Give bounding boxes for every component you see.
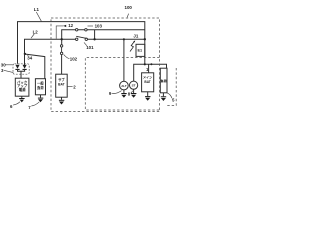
svg-text:負荷: 負荷 xyxy=(161,78,168,83)
svg-text:ST: ST xyxy=(132,84,136,88)
svg-text:E1: E1 xyxy=(137,48,142,52)
svg-text:34: 34 xyxy=(27,55,32,60)
svg-text:BAT: BAT xyxy=(58,82,65,86)
svg-text:BAT: BAT xyxy=(144,80,150,84)
svg-text:L2: L2 xyxy=(33,30,39,35)
svg-text:サブ: サブ xyxy=(58,77,65,82)
svg-text:電源: 電源 xyxy=(19,87,26,92)
svg-text:12: 12 xyxy=(68,23,73,28)
svg-text:J1: J1 xyxy=(133,34,138,39)
svg-text:100: 100 xyxy=(125,5,133,10)
svg-text:ALT: ALT xyxy=(121,84,127,88)
svg-text:負荷: 負荷 xyxy=(37,85,44,90)
svg-text:102: 102 xyxy=(70,56,78,61)
svg-text:30: 30 xyxy=(1,62,6,67)
svg-text:103: 103 xyxy=(95,24,103,29)
svg-text:101: 101 xyxy=(86,45,94,50)
svg-text:L1: L1 xyxy=(34,7,40,12)
